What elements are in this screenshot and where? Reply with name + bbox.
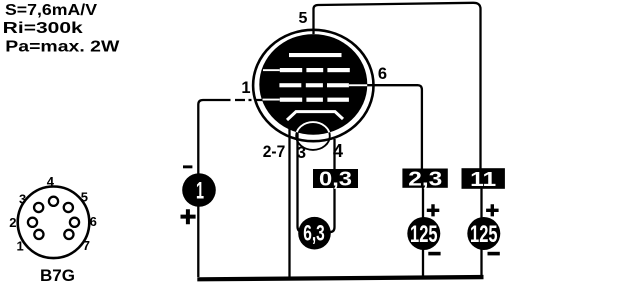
minus sign at grid bias source [183, 165, 192, 168]
svg-text:Ri=300k: Ri=300k [3, 20, 83, 37]
wire pin6 grid g2 to screen branch [366, 85, 422, 169]
plus sign at grid bias source [181, 209, 196, 224]
grid g1 (dashed row 3) [263, 98, 349, 102]
plus sign at screen supply [427, 204, 440, 216]
ground bus (bottom) [197, 275, 483, 282]
svg-text:6,3: 6,3 [303, 220, 325, 245]
svg-text:11: 11 [470, 169, 496, 191]
svg-text:0,3: 0,3 [319, 169, 352, 191]
wire pin1 grid g1 to bias circle (horizontal + left vertical) [198, 100, 263, 277]
socket pin 2 [28, 218, 37, 227]
ammeter box 2,3 (screen current) [402, 169, 447, 188]
socket pin 5 [64, 203, 73, 212]
svg-text:4: 4 [333, 141, 343, 161]
wire HT rail box11 to 125V meter to bus [480, 187, 482, 277]
wire pin4 heater to 0,3A box [333, 139, 335, 170]
anode plate bar [289, 53, 342, 57]
socket pin 3 [34, 203, 43, 212]
grid g2 (dashed row 2) [279, 83, 367, 87]
svg-text:1: 1 [241, 79, 250, 97]
grid g3 (dashed row 1) [263, 68, 350, 72]
heater supply 6,3V (circle) [298, 217, 331, 250]
cathode [287, 112, 343, 120]
ammeter box 0,3 (heater current) [313, 169, 358, 188]
wire pin5 anode to HT rail (top) [314, 3, 481, 169]
wire pin3 heater to 6,3V supply [298, 131, 303, 232]
svg-text:S=7,6mA/V: S=7,6mA/V [5, 2, 97, 19]
svg-text:7: 7 [83, 238, 90, 253]
dash-dot gaps on g1 lead [231, 98, 256, 102]
svg-text:3: 3 [19, 191, 26, 206]
svg-text:5: 5 [81, 189, 88, 204]
ammeter box 11 (anode current) [462, 168, 505, 189]
socket pin 7 [64, 230, 73, 239]
B7G socket outline (bottom view) [18, 187, 90, 259]
minus sign at screen supply [428, 252, 440, 256]
screen supply 125V (circle) [407, 217, 440, 250]
socket pin 1 [34, 230, 43, 239]
svg-text:1: 1 [16, 239, 23, 254]
svg-text:6: 6 [378, 65, 387, 83]
tube V1 envelope outline [253, 30, 373, 141]
svg-text:Pa=max. 2W: Pa=max. 2W [5, 39, 120, 56]
svg-text:B7G: B7G [40, 266, 75, 284]
grid bias source 1V (circle) [182, 173, 216, 207]
svg-text:125: 125 [470, 221, 498, 248]
svg-text:2-7: 2-7 [263, 142, 286, 161]
socket pin 4 [49, 197, 58, 206]
svg-text:5: 5 [299, 10, 308, 27]
svg-text:1: 1 [196, 178, 204, 205]
wire 0,3A box to 6,3V supply [331, 187, 335, 232]
svg-text:2: 2 [9, 215, 16, 230]
socket pin 6 [70, 218, 79, 227]
heater circle (black part outside disc) [296, 122, 330, 150]
wire screen box to 125V meter to bus [422, 187, 424, 277]
wire pins 2-7 cathode to ground bus [288, 128, 290, 277]
svg-text:6: 6 [90, 214, 97, 229]
svg-text:4: 4 [47, 174, 55, 189]
svg-text:125: 125 [410, 221, 438, 248]
plus sign at anode supply [486, 204, 499, 216]
tube V1 inner disc [259, 34, 367, 135]
anode supply 125V (circle) [467, 217, 500, 250]
svg-text:2,3: 2,3 [408, 168, 442, 190]
minus sign at anode supply [488, 252, 500, 256]
